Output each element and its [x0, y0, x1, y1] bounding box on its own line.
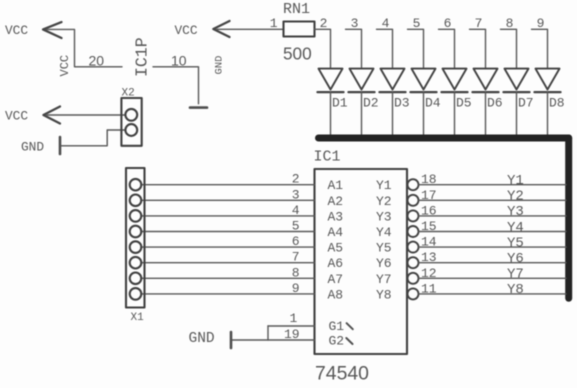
wire D3 cathode to ground bus [392, 92, 394, 135]
wire X1 pin to IC1 pin 3 [141, 199, 315, 201]
wire stub RN1 pin 7 [470, 29, 486, 68]
wire stub RN1 pin 6 [439, 29, 455, 68]
svg-text:A8: A8 [328, 287, 344, 302]
svg-text:A6: A6 [328, 256, 344, 271]
diode D8 [535, 69, 561, 93]
power symbol VCC for RN1 (arrow) [213, 21, 229, 37]
svg-text:7: 7 [292, 250, 300, 265]
svg-text:X2: X2 [122, 88, 135, 100]
diode D2 [349, 69, 375, 93]
svg-text:1: 1 [270, 16, 278, 31]
wire D7 cathode to ground bus [516, 92, 518, 135]
svg-text:15: 15 [421, 219, 437, 234]
wire X1 pin to IC1 pin 4 [141, 215, 315, 217]
wire D6 cathode to ground bus [485, 92, 487, 135]
svg-text:Y2: Y2 [507, 189, 524, 205]
wire X1 pin to IC1 pin 7 [141, 262, 315, 264]
wire VCC to RN1 pin 1 [217, 28, 284, 30]
pin circle IC1 pin 13 [408, 257, 419, 268]
svg-text:Y8: Y8 [507, 282, 524, 298]
wire VCC arrow to IC1P pin 20 [47, 29, 123, 66]
svg-text:3: 3 [292, 187, 300, 202]
svg-text:X1: X1 [131, 312, 145, 324]
svg-text:11: 11 [421, 281, 437, 296]
svg-text:9: 9 [537, 16, 545, 31]
wire X2 pin 1 to VCC [47, 114, 125, 116]
wire X1 pin to IC1 pin 6 [141, 246, 315, 248]
pin circle IC1 pin 16 [408, 210, 419, 221]
wire X1 pin to IC1 pin 8 [141, 277, 315, 279]
svg-text:Y1: Y1 [507, 173, 524, 189]
pin circle IC1 pin 18 [408, 179, 419, 190]
wire D5 cathode to ground bus [454, 92, 456, 135]
svg-text:17: 17 [421, 188, 437, 203]
diode D7 [504, 69, 530, 93]
svg-text:12: 12 [421, 266, 437, 281]
svg-text:VCC: VCC [175, 23, 198, 38]
svg-text:3: 3 [351, 16, 359, 31]
svg-text:1: 1 [289, 311, 297, 326]
wire junction G1-G2 [267, 326, 269, 340]
svg-text:18: 18 [421, 172, 437, 187]
diode D1 [318, 69, 344, 93]
ground terminal for X2 [59, 137, 62, 154]
svg-text:7: 7 [475, 16, 483, 31]
svg-text:GND: GND [21, 140, 44, 155]
pin circle IC1 pin 12 [408, 273, 419, 284]
resistor network RN1 [284, 22, 315, 37]
ground terminal bottom [230, 332, 233, 348]
svg-text:IC1P: IC1P [133, 37, 152, 77]
wire stub RN1 pin 5 [408, 29, 424, 68]
wire X2 pin 2 to GND [61, 130, 125, 146]
wire IC1 pin 17 to bus [419, 199, 567, 201]
svg-text:Y3: Y3 [507, 204, 524, 220]
svg-text:D8: D8 [549, 96, 565, 111]
svg-text:D6: D6 [487, 96, 503, 111]
wire G1 pin [268, 325, 315, 327]
wire IC1 pin 11 to bus [419, 293, 567, 295]
power symbol VCC for X2 (arrow) [43, 107, 60, 124]
wire stub RN1 pin 4 [377, 29, 393, 68]
wire X1 pin to IC1 pin 5 [141, 231, 315, 233]
svg-text:13: 13 [421, 250, 437, 265]
wire stub RN1 pin 9 [532, 29, 548, 68]
svg-text:Y6: Y6 [376, 256, 392, 271]
svg-text:Y5: Y5 [376, 241, 392, 256]
svg-text:A1: A1 [328, 178, 344, 193]
svg-text:6: 6 [444, 16, 452, 31]
svg-text:VCC: VCC [5, 109, 28, 124]
svg-text:Y4: Y4 [376, 225, 392, 240]
svg-text:RN1: RN1 [283, 1, 310, 18]
svg-text:Y4: Y4 [507, 220, 524, 236]
svg-text:Y5: Y5 [507, 235, 524, 251]
diode D3 [380, 69, 406, 93]
svg-text:8: 8 [506, 16, 514, 31]
svg-text:G2: G2 [329, 333, 345, 348]
svg-text:A3: A3 [328, 209, 344, 224]
diode D4 [411, 69, 437, 93]
wire stub RN1 pin 3 [346, 29, 362, 68]
svg-text:D5: D5 [456, 96, 472, 111]
svg-text:5: 5 [413, 16, 421, 31]
svg-text:D3: D3 [394, 96, 410, 111]
svg-text:500: 500 [283, 44, 312, 64]
wire X1 pin to IC1 pin 2 [141, 184, 315, 186]
diode D5 [442, 69, 468, 93]
svg-text:8: 8 [292, 265, 300, 280]
svg-text:D1: D1 [332, 96, 348, 111]
svg-text:Y8: Y8 [376, 287, 392, 302]
wire stub RN1 pin 8 [501, 29, 517, 68]
connector X1 [126, 168, 145, 308]
pin circle IC1 pin 15 [408, 226, 419, 237]
wire G2 pin to GND [232, 339, 315, 341]
svg-text:10: 10 [171, 52, 187, 68]
wire IC1 pin 13 to bus [419, 262, 567, 264]
svg-text:2: 2 [320, 16, 328, 31]
svg-text:G1: G1 [329, 319, 345, 334]
svg-text:VCC: VCC [5, 23, 28, 38]
svg-text:A2: A2 [328, 194, 344, 209]
svg-text:Y1: Y1 [376, 178, 392, 193]
svg-text:D2: D2 [363, 96, 379, 111]
svg-text:D7: D7 [518, 96, 534, 111]
svg-text:16: 16 [421, 203, 437, 218]
wire D4 cathode to ground bus [423, 92, 425, 135]
ground terminal (IC1P pin 10) [190, 106, 207, 109]
wire IC1 pin 14 to bus [419, 246, 567, 248]
svg-text:GND: GND [189, 331, 215, 347]
svg-text:Y2: Y2 [376, 194, 392, 209]
wire D2 cathode to ground bus [361, 92, 363, 135]
ground bus bar horizontal [319, 135, 569, 142]
wire X1 pin to IC1 pin 9 [141, 293, 315, 295]
wire D8 cathode to ground bus [547, 92, 549, 135]
svg-text:A7: A7 [328, 272, 344, 287]
svg-text:A5: A5 [328, 241, 344, 256]
svg-text:5: 5 [292, 219, 300, 234]
svg-text:GND: GND [214, 56, 226, 75]
wire RN1 pin 2 to D1 [315, 29, 331, 68]
svg-text:Y7: Y7 [507, 267, 524, 283]
ground bus bar vertical [565, 138, 572, 298]
svg-text:6: 6 [292, 234, 300, 249]
svg-text:VCC: VCC [58, 55, 72, 77]
svg-text:Y3: Y3 [376, 209, 392, 224]
power symbol VCC top-left (arrow) [43, 22, 62, 38]
IC IC1 body [315, 169, 408, 354]
connector X2 [121, 98, 141, 146]
svg-text:IC1: IC1 [314, 149, 341, 166]
svg-text:D4: D4 [425, 96, 441, 111]
pin circle IC1 pin 17 [408, 195, 419, 206]
pin circle IC1 pin 11 [408, 288, 419, 299]
wire IC1 pin 12 to bus [419, 277, 567, 279]
wire D1 cathode to ground bus [330, 92, 332, 135]
pin circle IC1 pin 14 [408, 242, 419, 253]
svg-text:4: 4 [292, 203, 300, 218]
svg-text:A4: A4 [328, 225, 344, 240]
svg-text:4: 4 [382, 16, 390, 31]
svg-text:2: 2 [292, 172, 300, 187]
svg-text:Y6: Y6 [507, 251, 524, 267]
svg-text:Y7: Y7 [376, 272, 392, 287]
svg-text:9: 9 [292, 281, 300, 296]
wire IC1 pin 18 to bus [419, 184, 567, 186]
svg-text:14: 14 [421, 235, 437, 250]
svg-text:74540: 74540 [315, 363, 369, 385]
wire IC1 pin 16 to bus [419, 215, 567, 217]
wire IC1P pin 10 to ground [153, 67, 199, 104]
svg-text:20: 20 [89, 52, 105, 68]
wire IC1 pin 15 to bus [419, 231, 567, 233]
diode D6 [473, 69, 499, 93]
